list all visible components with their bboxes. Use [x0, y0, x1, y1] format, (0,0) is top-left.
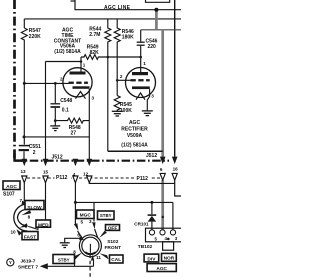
- svg-text:10: 10: [10, 229, 16, 234]
- svg-text:AGC: AGC: [6, 184, 17, 190]
- svg-text:82K: 82K: [90, 50, 100, 56]
- svg-text:13: 13: [20, 169, 26, 174]
- svg-text:NOR: NOR: [164, 256, 175, 262]
- svg-text:SHEET 7: SHEET 7: [18, 264, 38, 270]
- svg-text:3: 3: [151, 93, 154, 98]
- svg-text:9: 9: [25, 224, 28, 229]
- svg-text:0.1: 0.1: [62, 107, 69, 113]
- svg-text:6: 6: [77, 232, 80, 237]
- svg-text:MGC: MGC: [80, 212, 92, 218]
- svg-text:27: 27: [71, 130, 77, 136]
- svg-text:J512: J512: [146, 153, 157, 159]
- svg-text:2: 2: [60, 76, 63, 81]
- svg-text:STBY: STBY: [100, 213, 112, 218]
- svg-text:C548: C548: [60, 98, 72, 104]
- svg-text:11: 11: [96, 255, 101, 260]
- svg-text:(1/2) 5814A: (1/2) 5814A: [54, 49, 81, 55]
- svg-text:R545: R545: [120, 102, 132, 108]
- svg-text:15: 15: [43, 169, 49, 174]
- svg-text:Y: Y: [9, 260, 12, 265]
- svg-text:2: 2: [120, 74, 123, 79]
- svg-text:3: 3: [92, 96, 95, 101]
- svg-text:FAST: FAST: [24, 235, 36, 241]
- svg-text:P112: P112: [137, 176, 149, 182]
- svg-text:AGC: AGC: [156, 266, 167, 272]
- svg-text:S107: S107: [3, 192, 15, 198]
- svg-text:220: 220: [148, 44, 157, 50]
- svg-text:J512: J512: [52, 154, 63, 160]
- svg-text:DIV: DIV: [147, 256, 156, 262]
- svg-text:12: 12: [83, 172, 89, 177]
- svg-text:AGC LINE: AGC LINE: [104, 5, 131, 11]
- svg-text:8: 8: [28, 214, 31, 219]
- svg-text:P112: P112: [56, 175, 68, 181]
- svg-text:7: 7: [20, 198, 23, 203]
- svg-text:2: 2: [33, 150, 36, 156]
- svg-text:6: 6: [160, 167, 163, 172]
- svg-text:4: 4: [73, 172, 76, 177]
- svg-text:TB102: TB102: [138, 244, 153, 250]
- svg-text:CAL: CAL: [111, 257, 121, 263]
- svg-text:J619-7: J619-7: [21, 258, 36, 264]
- svg-text:SLOW: SLOW: [27, 205, 42, 211]
- svg-text:RECTIFIER: RECTIFIER: [121, 127, 148, 133]
- svg-text:CR101: CR101: [134, 222, 149, 227]
- svg-text:100K: 100K: [120, 108, 132, 114]
- svg-text:(1/2) 5814A: (1/2) 5814A: [121, 142, 148, 148]
- svg-text:FRONT: FRONT: [105, 245, 122, 251]
- svg-text:AGC: AGC: [129, 120, 141, 126]
- svg-text:5: 5: [81, 219, 84, 224]
- svg-text:2.7M: 2.7M: [89, 32, 100, 38]
- svg-text:MED: MED: [38, 222, 49, 228]
- svg-text:STBY: STBY: [58, 258, 70, 263]
- svg-text:S102: S102: [107, 239, 119, 245]
- svg-text:3: 3: [89, 219, 92, 224]
- svg-text:OFF: OFF: [108, 226, 118, 232]
- svg-text:180K: 180K: [122, 35, 134, 41]
- svg-text:1: 1: [83, 63, 86, 68]
- svg-text:1: 1: [143, 61, 146, 66]
- svg-text:8: 8: [73, 249, 76, 254]
- svg-text:V509A: V509A: [127, 133, 143, 139]
- svg-text:16: 16: [173, 166, 179, 171]
- svg-text:220K: 220K: [29, 34, 41, 40]
